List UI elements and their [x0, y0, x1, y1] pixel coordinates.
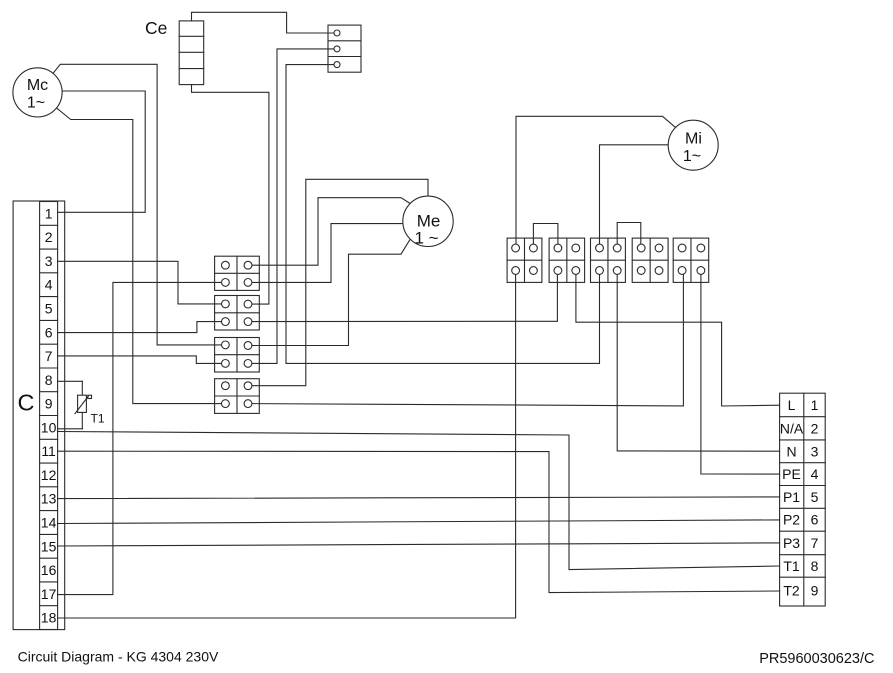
wire Mi bottom to block D3 left-top [600, 145, 669, 248]
svg-text:17: 17 [41, 586, 57, 602]
svg-text:T1: T1 [783, 558, 800, 574]
connector C terminal strip cells 1-18 [40, 202, 58, 630]
svg-text:1 ~: 1 ~ [414, 229, 438, 248]
svg-text:2: 2 [811, 420, 819, 436]
terminal block B (2x2) [549, 238, 585, 282]
svg-text:PR5960030623/C: PR5960030623/C [759, 651, 874, 667]
wire block E right-bottom to X2 terminal PE/4 [701, 271, 780, 475]
wire jumper block A right-top to block B left-top [533, 224, 558, 249]
terminal block K3 (2x2) [215, 338, 260, 373]
svg-text:Mc: Mc [27, 77, 48, 94]
capacitor Ce [179, 21, 204, 85]
wire K4 right-bottom to block E left-bottom [248, 271, 683, 406]
block E terminal circles [678, 244, 705, 274]
svg-text:4: 4 [45, 277, 53, 293]
svg-text:4: 4 [811, 466, 819, 482]
wire C terminal 6 to K2 left-bottom [58, 322, 226, 333]
svg-text:N: N [786, 443, 796, 459]
svg-text:L: L [788, 397, 796, 413]
X1 pin circles [334, 30, 340, 68]
K4 terminal circles [222, 382, 252, 408]
svg-text:PE: PE [782, 466, 801, 482]
svg-text:9: 9 [45, 396, 53, 412]
terminal block D4 (2x2) [632, 238, 668, 282]
svg-text:6: 6 [811, 512, 819, 528]
wire K2 right-bottom to block B left-bottom [248, 271, 557, 322]
wire C terminal 17 to K1 left-bottom [58, 282, 226, 594]
wire Mc middle to C terminal 1 [58, 91, 146, 212]
K2 terminal circles [222, 300, 252, 326]
block D3 terminal circles [596, 244, 622, 274]
svg-text:2: 2 [45, 229, 53, 245]
block B terminal circles [554, 244, 580, 274]
svg-text:13: 13 [41, 491, 57, 507]
svg-text:5: 5 [45, 301, 53, 317]
svg-text:10: 10 [41, 419, 57, 435]
svg-text:11: 11 [41, 443, 56, 459]
wire Ce top to X1 pin1 [192, 12, 338, 33]
svg-text:1: 1 [811, 397, 819, 413]
wire C terminal 14 to X2 terminal P2/6 [58, 520, 780, 524]
svg-text:C: C [18, 390, 35, 416]
label Mi 1~ [683, 131, 702, 166]
label Mc 1~ [27, 77, 48, 112]
svg-text:16: 16 [41, 562, 57, 578]
wire C terminal 18 to block A left-bottom [58, 271, 516, 619]
K3 terminal circles [222, 341, 252, 367]
svg-text:3: 3 [811, 443, 819, 459]
svg-text:18: 18 [41, 610, 57, 626]
wire Me top to K4 right-top [248, 179, 428, 385]
wire block B right-bottom to X2 terminal L/1 [576, 271, 780, 407]
terminal block X1 (3-way, top right) [328, 25, 361, 72]
wire block D3 right-bottom to X2 terminal N/3 [617, 271, 779, 452]
block A terminal circles [512, 244, 538, 274]
svg-text:8: 8 [811, 558, 819, 574]
svg-text:T2: T2 [783, 583, 800, 599]
svg-text:8: 8 [45, 372, 53, 388]
wire C terminal 10 to X2 terminal T1/8 [58, 432, 780, 570]
svg-text:7: 7 [811, 535, 819, 551]
svg-text:9: 9 [811, 583, 819, 599]
thermistor T1 [58, 381, 92, 429]
block D4 terminal circles [637, 244, 663, 274]
wire K3 right-top to Me [248, 239, 410, 346]
svg-text:Circuit Diagram - KG 4304 230V: Circuit Diagram - KG 4304 230V [18, 649, 219, 665]
wire C terminal 7 to K3 left-bottom [58, 356, 226, 364]
wire Mi top to block A left-top [516, 116, 676, 248]
wire C terminal 11 to X2 terminal T2/9 [58, 451, 780, 592]
svg-text:6: 6 [45, 324, 53, 340]
svg-text:Mi: Mi [685, 131, 702, 148]
wire C terminal 13 to X2 terminal P1/5 [58, 497, 780, 499]
terminal block K1 (2x2) [215, 256, 260, 290]
terminal block K2 (2x2) [215, 296, 260, 331]
motor Mi [668, 120, 718, 170]
motor Me [403, 196, 453, 246]
K1 terminal circles [222, 261, 252, 286]
label Me 1~ [414, 212, 440, 248]
svg-text:Ce: Ce [145, 18, 167, 38]
svg-text:3: 3 [45, 253, 53, 269]
wire jumper block D3 right-top to block D4 left-top [617, 223, 641, 249]
svg-text:P2: P2 [783, 512, 800, 528]
terminal block X2 (L..T2 / 1..9) [780, 393, 826, 606]
X2 pin numbers 1-9 [811, 397, 819, 598]
wire X1 pin2 to K3 right-bottom [248, 49, 337, 364]
motor Mc [13, 68, 62, 117]
wire K1 right-bottom to Me [248, 224, 403, 283]
terminal block K4 (2x2) [215, 379, 260, 414]
svg-text:1~: 1~ [683, 148, 701, 165]
svg-text:5: 5 [811, 489, 819, 505]
svg-text:7: 7 [45, 348, 53, 364]
svg-text:P3: P3 [783, 535, 800, 551]
svg-text:14: 14 [41, 515, 57, 531]
X2 row labels L N/A N PE P1 P2 P3 T1 T2 [780, 397, 804, 598]
terminal block E (2x2) [673, 238, 709, 282]
svg-text:15: 15 [41, 538, 57, 554]
svg-text:12: 12 [41, 467, 57, 483]
wire Mc bottom to K4 left-bottom [57, 108, 226, 404]
svg-text:T1: T1 [91, 412, 105, 426]
wire Ce bottom to K2 right-top [192, 85, 269, 305]
connector C outer body [13, 201, 65, 630]
wire C terminal 15 to X2 terminal P3/7 [58, 543, 780, 546]
svg-text:P1: P1 [783, 489, 800, 505]
terminal block A (2x2) [507, 238, 542, 282]
wire C terminal 3 to K2 left-top [58, 261, 226, 304]
svg-text:1: 1 [45, 205, 53, 221]
svg-text:N/A: N/A [780, 420, 804, 436]
wire X1 pin3 to block D3 left-bottom [286, 65, 600, 364]
svg-text:1~: 1~ [27, 95, 45, 112]
wire K1 right-top to Me [248, 198, 410, 266]
wire Mc top to K3 left-top [53, 64, 225, 345]
connector C pin numbers 1-18 [41, 205, 57, 625]
terminal block D3 (2x2) [591, 238, 626, 282]
